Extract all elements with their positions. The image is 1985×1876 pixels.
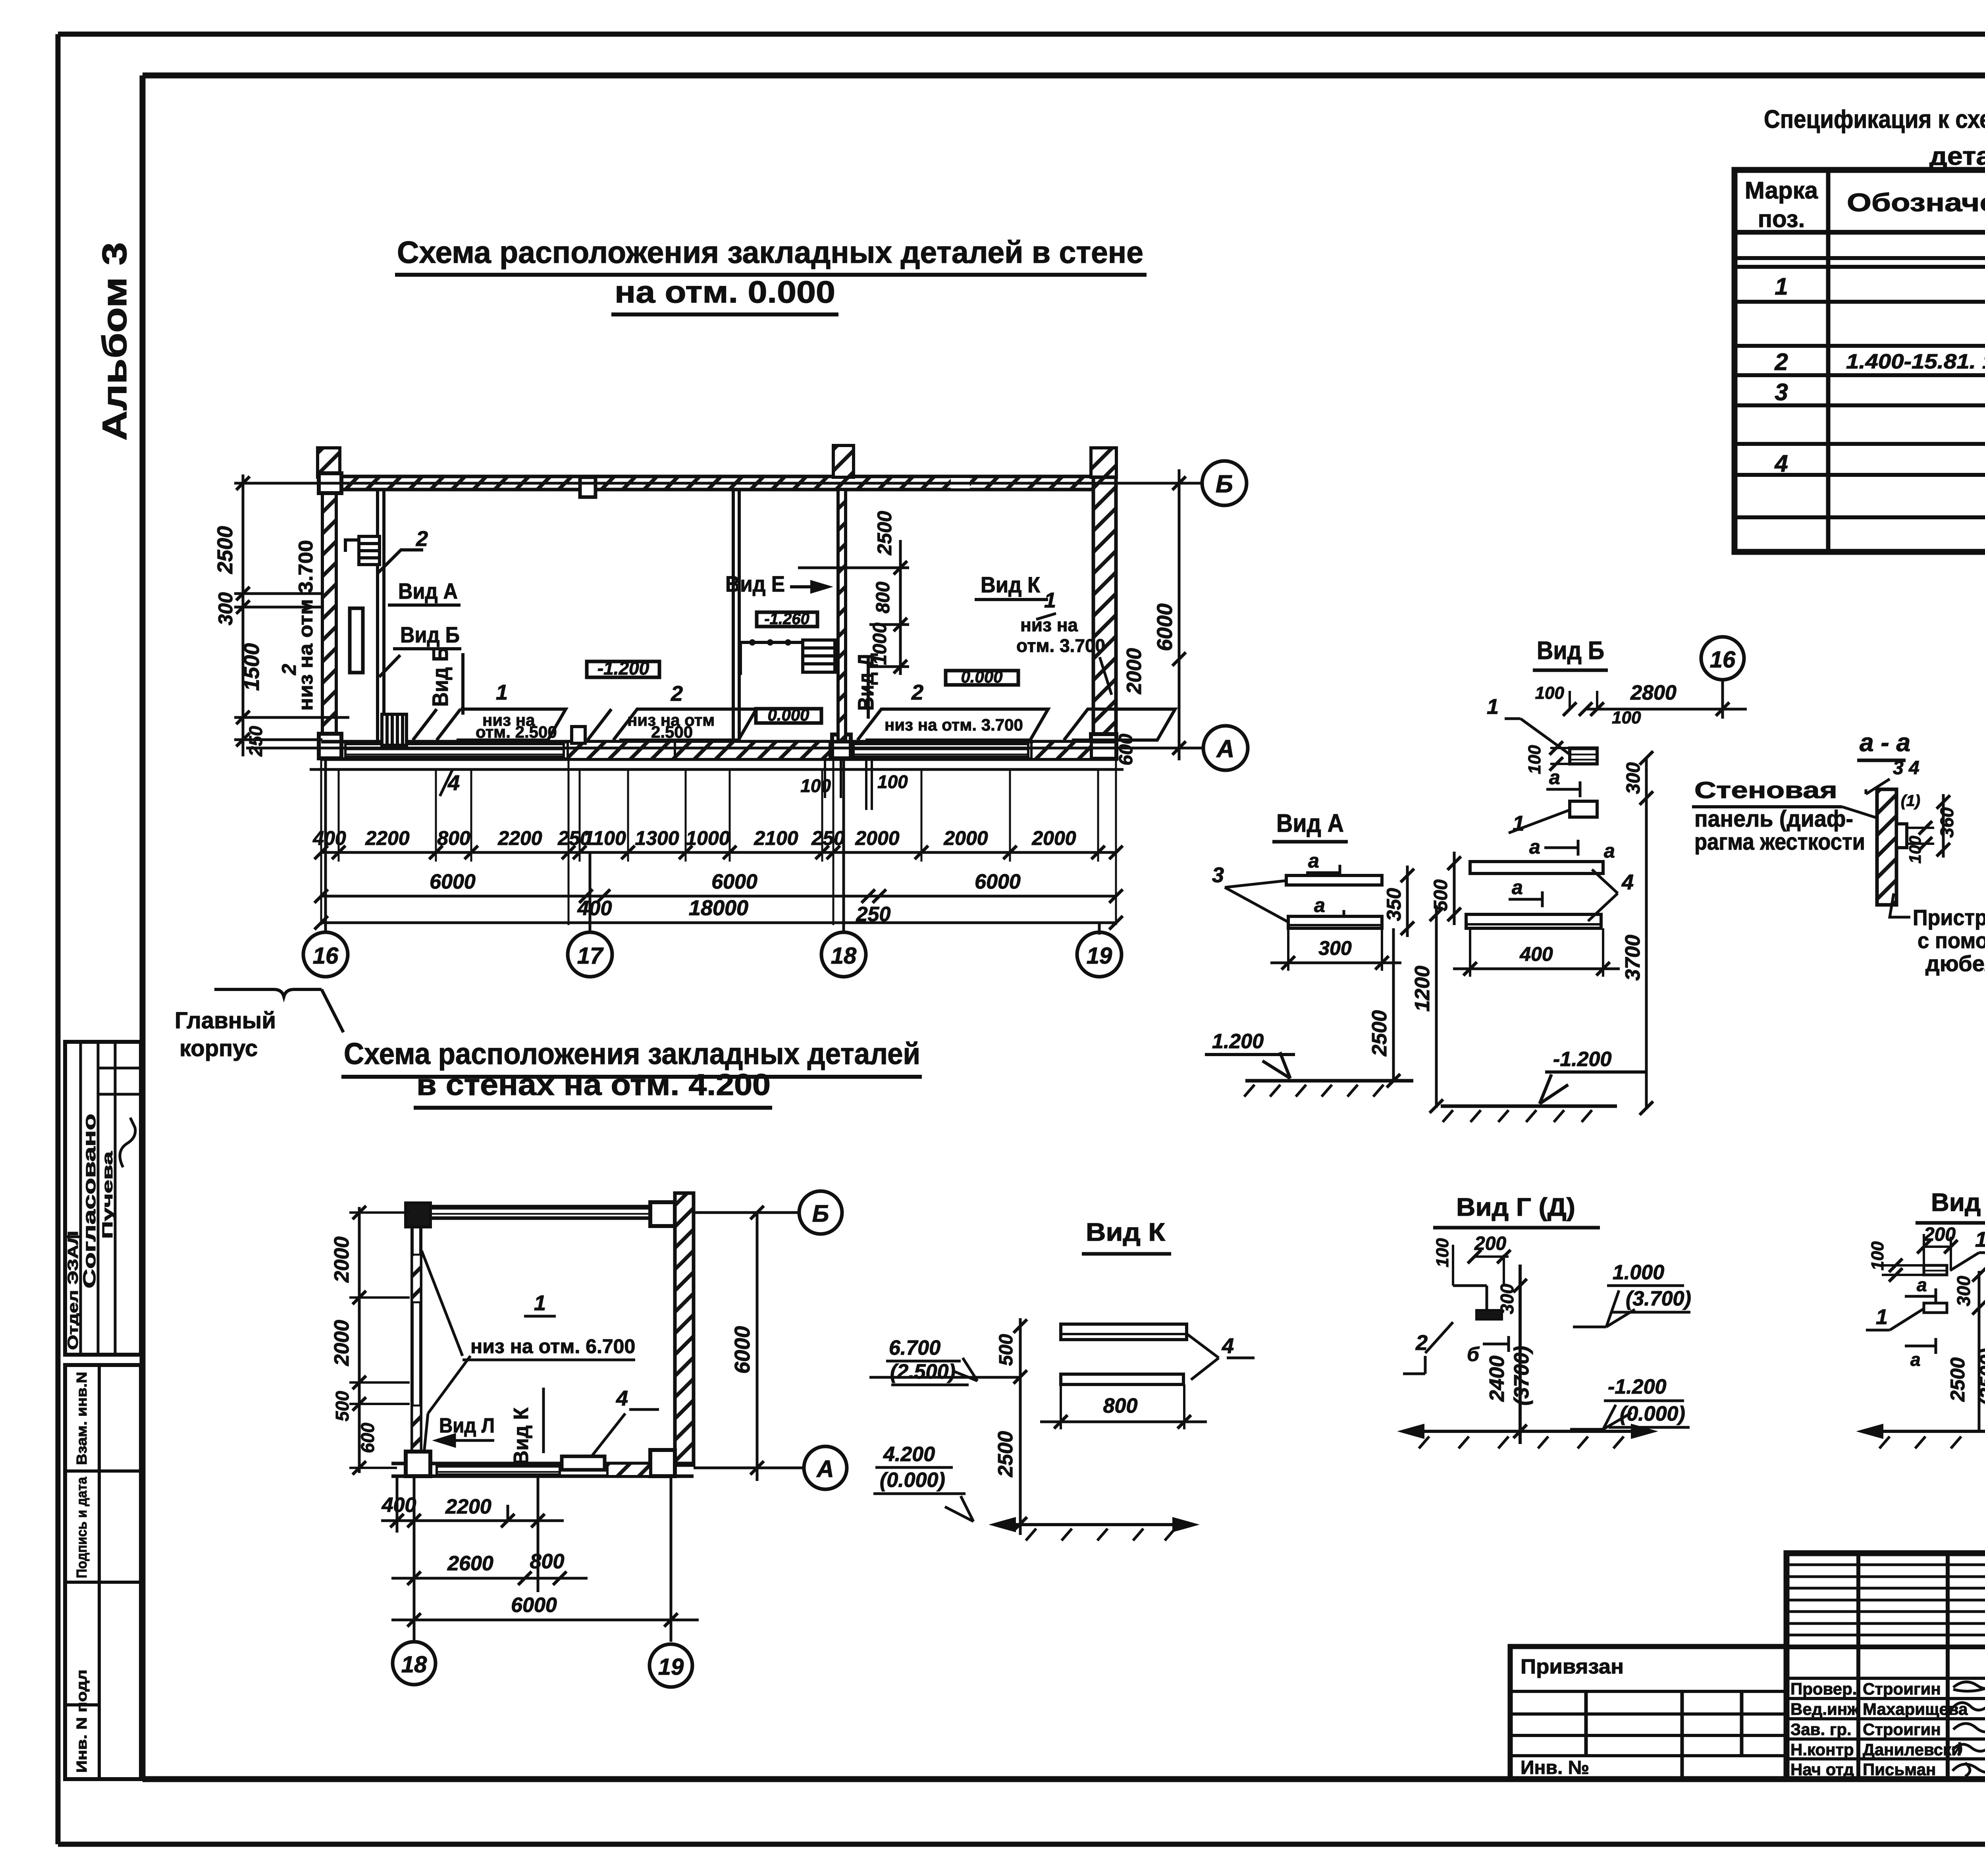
svg-text:300: 300 (1318, 937, 1352, 959)
svg-text:1000: 1000 (869, 623, 890, 665)
left dim chain plan2 (358, 1207, 361, 1473)
level box 0.000 room3 (946, 671, 1018, 685)
svg-text:6000: 6000 (730, 1326, 754, 1374)
svg-text:1000: 1000 (686, 827, 730, 849)
svg-text:3: 3 (1775, 379, 1788, 405)
svg-text:600: 600 (1116, 734, 1137, 765)
bottom plate strip (437, 1465, 560, 1475)
axis extension lines to circles (326, 759, 1099, 935)
svg-text:19: 19 (658, 1654, 684, 1680)
bottom wall band (310, 742, 1124, 769)
svg-text:2: 2 (671, 682, 683, 706)
svg-text:800: 800 (1103, 1394, 1138, 1417)
svg-text:Провер.: Провер. (1790, 1679, 1857, 1698)
svg-text:2800: 2800 (1630, 681, 1677, 704)
bottom-right column (650, 1450, 675, 1476)
SPEC TABLE CONTENT (1774, 273, 1985, 520)
top wall band (410, 1207, 671, 1218)
svg-text:Вид К: Вид К (1086, 1218, 1166, 1246)
inner dim chain right of partition 2 (798, 540, 909, 675)
item 3 tall plate (350, 608, 363, 673)
svg-text:Подпись и дата: Подпись и дата (73, 1477, 90, 1578)
svg-text:6000: 6000 (1153, 603, 1177, 651)
svg-text:а: а (1604, 840, 1615, 862)
stamp group A (soglasovano) (65, 1042, 141, 1355)
svg-text:Вид А: Вид А (398, 578, 458, 603)
svg-text:а: а (1308, 850, 1319, 872)
svg-text:низ на отм. 6.700: низ на отм. 6.700 (470, 1335, 635, 1357)
svg-text:6000: 6000 (430, 870, 476, 893)
svg-text:300: 300 (1623, 762, 1644, 794)
svg-text:100: 100 (1906, 836, 1924, 864)
bottom wall (391, 1463, 694, 1476)
svg-text:-1.200: -1.200 (1553, 1048, 1612, 1071)
axis circle B (1202, 461, 1247, 505)
svg-text:Н.контр: Н.контр (1790, 1740, 1854, 1759)
svg-text:низ на отм. 3.700: низ на отм. 3.700 (885, 715, 1023, 734)
axis circle 19 plan2 (649, 1644, 692, 1687)
GLAVNY KORPUS label (214, 989, 343, 1032)
svg-text:2: 2 (278, 664, 300, 675)
dim row 3 : 18000 (321, 922, 1116, 924)
columns above top wall (318, 448, 340, 477)
svg-text:1.000: 1.000 (1613, 1261, 1664, 1284)
svg-text:300: 300 (1497, 1284, 1517, 1314)
svg-text:а: а (1917, 1274, 1927, 1295)
svg-text:1500: 1500 (240, 643, 264, 691)
svg-text:низ на отм 3.700: низ на отм 3.700 (295, 540, 317, 711)
svg-text:а - а: а - а (1860, 728, 1910, 757)
right wall hatched (675, 1193, 694, 1465)
svg-text:Письман: Письман (1863, 1760, 1936, 1779)
svg-text:400: 400 (312, 827, 346, 849)
svg-text:2: 2 (416, 527, 428, 551)
svg-text:в стенах на отм. 4.200: в стенах на отм. 4.200 (416, 1068, 771, 1102)
axis lines to circles (694, 1213, 804, 1468)
svg-text:Спецификация к схеме расположе: Спецификация к схеме расположения заклад… (1764, 105, 1985, 133)
svg-text:Согласовано: Согласовано (80, 1114, 99, 1288)
name rows texts (1790, 1679, 1968, 1779)
top-left corner column (solid) (406, 1203, 430, 1227)
svg-text:2500: 2500 (1368, 1010, 1391, 1057)
svg-text:Схема расположения закладных д: Схема расположения закладных деталей в с… (397, 235, 1143, 270)
partition wall 3 (axis 18) (838, 490, 846, 742)
svg-text:Инв. №: Инв. № (1521, 1757, 1589, 1778)
axis circle 18 (821, 932, 866, 977)
svg-text:1: 1 (1975, 1228, 1985, 1251)
svg-text:2.500: 2.500 (651, 723, 693, 741)
svg-text:2200: 2200 (365, 827, 409, 849)
LEFT MARGIN STAMPS (65, 1042, 141, 1779)
TITLE BLOCK (1786, 1553, 1985, 1780)
svg-text:100: 100 (1535, 683, 1565, 703)
svg-text:панель (диаф-: панель (диаф- (1694, 806, 1853, 832)
svg-text:300: 300 (214, 592, 237, 625)
DETAIL VIEW: Vid K (869, 1218, 1255, 1541)
svg-text:а: а (1529, 836, 1540, 858)
bottom-left corner column (406, 1452, 430, 1476)
svg-text:на отм. 0.000: на отм. 0.000 (615, 274, 835, 309)
svg-text:400: 400 (382, 1494, 416, 1517)
svg-text:А: А (816, 1456, 834, 1482)
signatures squiggles (1951, 1682, 1985, 1776)
svg-text:-1.260: -1.260 (764, 610, 809, 628)
svg-text:-1.200: -1.200 (1608, 1375, 1667, 1398)
corner column squares (319, 473, 341, 493)
svg-text:Строигин: Строигин (1863, 1720, 1941, 1739)
svg-text:1200: 1200 (1411, 966, 1434, 1012)
svg-text:2200: 2200 (497, 827, 542, 849)
svg-text:2200: 2200 (445, 1495, 491, 1518)
svg-text:800: 800 (530, 1550, 565, 1573)
top-right column (650, 1202, 675, 1226)
dim row 2 (321, 895, 1116, 898)
svg-text:350: 350 (1383, 888, 1405, 921)
svg-text:1: 1 (1876, 1305, 1888, 1329)
svg-text:19: 19 (1087, 943, 1112, 969)
svg-text:Вид Е: Вид Е (725, 571, 785, 596)
svg-text:6.700: 6.700 (889, 1336, 940, 1359)
svg-text:6000: 6000 (711, 870, 757, 893)
svg-text:(0.000): (0.000) (880, 1469, 945, 1492)
svg-text:100: 100 (800, 775, 831, 796)
svg-text:Вид Л: Вид Л (439, 1414, 495, 1437)
svg-text:(3.700): (3.700) (1626, 1287, 1691, 1310)
level box -1.200 (587, 661, 659, 677)
svg-text:Обозначение: Обозначение (1847, 188, 1985, 217)
svg-text:4.200: 4.200 (883, 1443, 935, 1466)
svg-text:Б: Б (1216, 470, 1233, 498)
svg-text:1: 1 (1513, 812, 1524, 835)
svg-text:3700: 3700 (1621, 935, 1644, 981)
svg-text:16: 16 (313, 943, 339, 969)
svg-text:Марка: Марка (1745, 177, 1818, 204)
svg-text:Пристрелить: Пристрелить (1913, 905, 1985, 930)
svg-text:Данилевски: Данилевски (1863, 1740, 1962, 1759)
svg-text:16: 16 (1710, 647, 1736, 673)
svg-text:18: 18 (401, 1652, 427, 1677)
bottom hatch segment (607, 1463, 650, 1476)
wall pilaster at axis 17 (580, 477, 595, 497)
svg-text:Вид Е (Л): Вид Е (Л) (1931, 1188, 1985, 1217)
svg-text:Вид К: Вид К (981, 572, 1041, 597)
svg-text:2000: 2000 (1031, 827, 1076, 849)
PRIVYAZAN BLOCK (1510, 1647, 1786, 1779)
svg-text:деталей в стене: деталей в стене (1929, 142, 1985, 170)
svg-text:2100: 2100 (754, 827, 798, 849)
svg-text:Вид К: Вид К (510, 1407, 533, 1465)
PLAN 2 : layout at elev 4.200 (330, 1191, 847, 1687)
DETAIL VIEW: Vid A (1205, 809, 1414, 1097)
bottom wall plate strips (345, 744, 564, 757)
svg-text:дюбелей: дюбелей (1925, 951, 1985, 976)
bottom dim rows plan2 (381, 1476, 699, 1642)
svg-text:Вед.инж: Вед.инж (1790, 1700, 1860, 1718)
svg-text:а: а (1314, 894, 1325, 916)
svg-text:600: 600 (357, 1423, 378, 1453)
svg-text:отм. 2.500: отм. 2.500 (476, 723, 557, 741)
svg-text:500: 500 (996, 1334, 1017, 1366)
svg-text:400: 400 (577, 897, 612, 920)
level box 1.260 (757, 612, 817, 627)
svg-text:3 4: 3 4 (1893, 758, 1919, 779)
left wall (412, 1227, 421, 1453)
partition wall 1 (378, 490, 384, 742)
dim row 1 (321, 759, 1116, 925)
bottom wall hatch segments (568, 742, 675, 759)
svg-text:2500: 2500 (994, 1431, 1017, 1477)
svg-text:Привязан: Привязан (1521, 1655, 1624, 1678)
svg-text:250: 250 (245, 726, 266, 757)
svg-text:Альбом 3: Альбом 3 (96, 242, 134, 441)
svg-text:2000: 2000 (1123, 648, 1146, 694)
svg-text:1.200: 1.200 (1212, 1030, 1264, 1053)
stair symbol at axis 18 (740, 640, 835, 675)
svg-text:Вид Б: Вид Б (428, 647, 453, 707)
svg-text:Б: Б (812, 1200, 829, 1227)
svg-text:Нач отд: Нач отд (1790, 1760, 1854, 1779)
partition wall 2 (733, 490, 739, 742)
svg-text:Схема расположения закладных д: Схема расположения закладных деталей (344, 1037, 920, 1071)
svg-text:300: 300 (1953, 1276, 1974, 1306)
axis circle A (1203, 726, 1248, 770)
svg-text:Отдел ЭЗАЛ: Отдел ЭЗАЛ (65, 1231, 81, 1350)
svg-text:низ на: низ на (1020, 615, 1078, 635)
AXIS LINES (246, 483, 1203, 748)
svg-text:1: 1 (534, 1291, 546, 1315)
level box 0.000 room2 (756, 709, 821, 723)
svg-text:с помощью: с помощью (1918, 928, 1985, 953)
svg-text:1300: 1300 (635, 827, 679, 849)
svg-text:800: 800 (873, 582, 894, 613)
svg-text:рагма жесткости: рагма жесткости (1694, 829, 1865, 855)
svg-text:А: А (1216, 735, 1235, 763)
svg-text:2000: 2000 (330, 1320, 353, 1366)
axis circle 16 (303, 932, 348, 977)
SPEC TABLE GRID (1734, 170, 1985, 552)
svg-text:1: 1 (1775, 273, 1788, 300)
svg-text:500: 500 (332, 1391, 353, 1421)
svg-text:Строигин: Строигин (1863, 1679, 1941, 1698)
svg-text:500: 500 (1430, 879, 1451, 911)
svg-text:18000: 18000 (689, 896, 748, 920)
svg-text:2000: 2000 (943, 827, 988, 849)
right dim 6000 (756, 1213, 759, 1481)
ladder item near partition 1 (345, 536, 380, 565)
svg-text:Главный: Главный (175, 1008, 276, 1033)
svg-text:2500: 2500 (213, 526, 237, 574)
svg-text:а: а (1549, 766, 1560, 789)
right wall (1093, 477, 1116, 759)
DETAIL VIEW: Vid E (L) (1862, 1188, 1985, 1448)
PLAN 1 : layout at elev 0.000 (213, 445, 1248, 977)
axis circle 18 plan2 (393, 1642, 436, 1685)
upper mini rows (1786, 1565, 1985, 1635)
svg-text:6000: 6000 (511, 1594, 557, 1617)
svg-text:4: 4 (1774, 450, 1788, 477)
DETAIL VIEW: Vid B with axis 16 (1411, 636, 1747, 1122)
svg-text:Взам. инв.N: Взам. инв.N (73, 1372, 90, 1465)
svg-text:Инв. N подл: Инв. N подл (73, 1670, 90, 1773)
svg-text:отм. 3.700: отм. 3.700 (1016, 635, 1105, 656)
svg-text:0.000: 0.000 (961, 667, 1002, 686)
svg-text:1: 1 (1044, 588, 1056, 612)
svg-text:Зав. гр.: Зав. гр. (1790, 1720, 1852, 1739)
svg-text:корпус: корпус (179, 1035, 258, 1061)
svg-text:2600: 2600 (447, 1552, 493, 1575)
svg-text:2: 2 (1774, 349, 1788, 375)
left dim chain (234, 474, 349, 756)
radiator grate on bottom wall (382, 714, 407, 745)
svg-text:(2500): (2500) (1976, 1348, 1985, 1406)
svg-text:2500: 2500 (1946, 1357, 1969, 1402)
svg-text:250: 250 (811, 827, 845, 849)
svg-text:б: б (1467, 1343, 1480, 1365)
svg-text:2000: 2000 (855, 827, 899, 849)
DETAIL VIEW: a-a section (1692, 728, 1985, 976)
top wall band (321, 476, 1116, 490)
svg-text:2400: 2400 (1486, 1355, 1509, 1402)
svg-text:17: 17 (577, 943, 604, 969)
axis circle 17 (568, 932, 612, 977)
svg-text:Вид А: Вид А (1276, 809, 1344, 837)
right dim chain 6000 (1178, 469, 1181, 760)
svg-text:поз.: поз. (1758, 206, 1805, 232)
svg-text:Стеновая: Стеновая (1694, 777, 1837, 803)
svg-text:Вид Г (Д): Вид Г (Д) (1456, 1193, 1575, 1221)
pilaster on bottom wall (572, 727, 585, 743)
svg-text:1100: 1100 (583, 827, 626, 849)
svg-text:(1): (1) (1901, 792, 1920, 810)
svg-text:Вид Б: Вид Б (1537, 636, 1604, 665)
svg-text:6000: 6000 (975, 870, 1021, 893)
axis circle B plan2 (799, 1191, 842, 1234)
svg-text:800: 800 (437, 827, 470, 849)
DETAIL VIEW: Vid G (D) (1403, 1193, 1691, 1448)
svg-text:Вид Б: Вид Б (400, 622, 460, 647)
svg-text:(2.500): (2.500) (890, 1360, 956, 1383)
svg-text:360: 360 (1937, 807, 1957, 838)
stamp group B (inv/podpis) (65, 1365, 141, 1779)
item 4 plate on bottom wall (562, 1456, 605, 1470)
axis circle A plan2 (804, 1446, 847, 1489)
svg-text:1: 1 (1487, 695, 1499, 719)
svg-text:1: 1 (496, 681, 508, 704)
svg-text:100: 100 (1525, 745, 1544, 774)
svg-text:-1.200: -1.200 (597, 658, 649, 679)
svg-text:400: 400 (1519, 943, 1553, 965)
svg-text:2500: 2500 (873, 511, 896, 555)
svg-text:4: 4 (1621, 870, 1634, 894)
svg-text:Пучева: Пучева (99, 1151, 116, 1239)
svg-text:4: 4 (1222, 1334, 1234, 1358)
svg-text:100: 100 (877, 771, 908, 792)
svg-text:а: а (1910, 1349, 1921, 1370)
left wall (322, 490, 336, 758)
separator above name rows (1786, 1645, 1985, 1649)
svg-text:2: 2 (911, 681, 923, 704)
SPEC TABLE HEADER (1745, 177, 1985, 232)
svg-text:3: 3 (1212, 863, 1224, 887)
svg-text:(3700): (3700) (1510, 1346, 1533, 1406)
svg-text:1.400-15.81. 110-08: 1.400-15.81. 110-08 (1846, 350, 1985, 373)
svg-text:2000: 2000 (330, 1236, 353, 1283)
svg-text:4: 4 (616, 1386, 628, 1410)
svg-text:18: 18 (831, 943, 857, 969)
svg-text:100: 100 (1433, 1238, 1452, 1267)
svg-text:0.000: 0.000 (767, 706, 809, 724)
axis circle 19 (1077, 932, 1122, 977)
svg-text:а: а (1512, 876, 1523, 898)
svg-text:100: 100 (1612, 708, 1641, 727)
